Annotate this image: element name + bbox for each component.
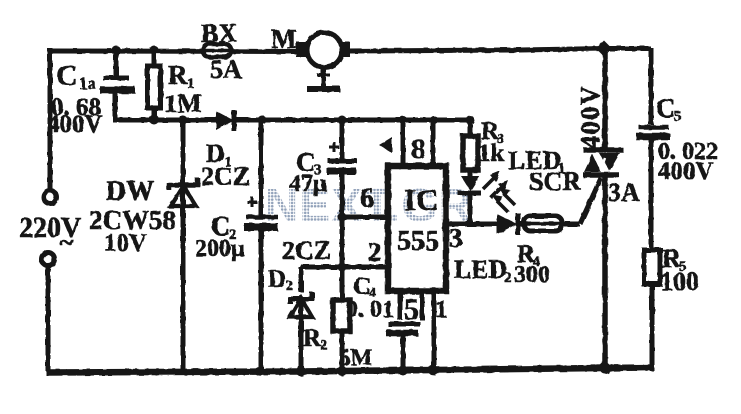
- svg-text:2: 2: [320, 338, 327, 353]
- svg-text:2CZ: 2CZ: [282, 236, 331, 265]
- node SCR top: [596, 41, 612, 57]
- fuse BX: [203, 44, 231, 57]
- pin 4 arrow: [379, 137, 392, 153]
- svg-text:1: 1: [435, 296, 448, 323]
- svg-text:300: 300: [514, 262, 550, 288]
- svg-text:NEXT.GR: NEXT.GR: [265, 179, 473, 231]
- node top C1a: [112, 46, 121, 55]
- svg-text:100: 100: [660, 267, 699, 296]
- wire LED2 lead: [470, 222, 580, 227]
- wire D2 branch: [301, 267, 342, 292]
- node SCR bottom: [600, 363, 611, 374]
- motor M: [296, 33, 350, 90]
- svg-text:M: M: [271, 24, 296, 54]
- svg-text:SCR: SCR: [529, 167, 581, 196]
- svg-text:BX: BX: [201, 19, 237, 48]
- wire through R4: [520, 222, 580, 226]
- wire left input: [48, 48, 53, 190]
- svg-text:3A: 3A: [608, 178, 640, 207]
- SCR: [583, 150, 623, 175]
- wire R3 branch: [468, 120, 473, 224]
- wire pin3: [446, 222, 470, 227]
- svg-text:10V: 10V: [104, 230, 147, 257]
- svg-text:5: 5: [674, 109, 682, 125]
- svg-text:DW: DW: [106, 176, 154, 207]
- wire C3 branch: [340, 121, 345, 268]
- wire through fuse: [196, 49, 238, 53]
- capacitor C2: [244, 197, 278, 227]
- terminal 220V lower: [42, 253, 55, 266]
- capacitor C1a: [100, 78, 135, 90]
- node pin8 right: [430, 116, 438, 124]
- svg-text:400V: 400V: [47, 111, 103, 138]
- svg-text:400V: 400V: [575, 85, 605, 149]
- svg-text:5A: 5A: [210, 55, 242, 84]
- svg-text:LED: LED: [454, 255, 507, 284]
- wire R1 leads: [152, 52, 157, 120]
- LED LED1: [458, 176, 481, 193]
- diode D1: [216, 110, 234, 131]
- wire bottom rail: [46, 368, 653, 373]
- svg-text:0. 01: 0. 01: [346, 297, 394, 323]
- wire mid rail left: [113, 118, 218, 123]
- LED LED2: [497, 213, 518, 235]
- wire top rail right: [348, 49, 651, 52]
- IC U1 555: [388, 166, 446, 291]
- node C4 bottom: [398, 365, 408, 375]
- svg-text:8: 8: [411, 133, 426, 165]
- node D2 bottom: [296, 366, 306, 376]
- LED2 arrows: [492, 188, 515, 212]
- wire R5 bottom lead: [650, 284, 655, 371]
- svg-text:1a: 1a: [79, 74, 97, 93]
- node C2 top: [258, 116, 267, 125]
- svg-text:200μ: 200μ: [195, 236, 245, 262]
- svg-text:2CZ: 2CZ: [201, 162, 250, 191]
- wire lower input: [46, 266, 51, 371]
- wire pin2: [342, 265, 388, 270]
- wire C5 branch: [649, 48, 654, 250]
- node top R1: [150, 46, 159, 55]
- svg-text:2: 2: [286, 279, 293, 294]
- node R3 top: [466, 116, 475, 125]
- capacitor C3: [326, 142, 357, 171]
- resistor R2: [333, 300, 350, 331]
- capacitor C4: [386, 324, 420, 371]
- svg-text:2: 2: [504, 270, 512, 286]
- wire pin6: [342, 215, 388, 220]
- svg-text:5M: 5M: [339, 345, 373, 370]
- node C3 top: [338, 116, 347, 125]
- resistor R3: [463, 136, 478, 170]
- wire C1a bottom lead: [113, 92, 118, 120]
- wire DW branch: [181, 120, 186, 372]
- node pin6: [338, 213, 347, 222]
- wire mid rail right: [234, 118, 472, 123]
- svg-text:1k: 1k: [478, 140, 505, 167]
- zener DW: [169, 178, 198, 206]
- svg-text:5: 5: [404, 293, 419, 326]
- zener D2: [290, 292, 312, 371]
- svg-text:~: ~: [60, 228, 74, 257]
- svg-text:1M: 1M: [164, 89, 202, 118]
- node pin1 bottom: [428, 365, 438, 375]
- resistor R1: [148, 66, 161, 108]
- resistor R4: [524, 216, 562, 231]
- capacitor C5: [636, 128, 670, 137]
- svg-text:D: D: [268, 266, 286, 293]
- wire top rail left: [50, 49, 299, 55]
- svg-text:2: 2: [368, 237, 382, 267]
- svg-text:400V: 400V: [658, 158, 714, 185]
- wire pin1: [432, 291, 437, 371]
- node pin8 left: [399, 116, 407, 124]
- wire R2 leads: [340, 267, 345, 371]
- LED1 arrows: [483, 171, 508, 198]
- wire SCR gate: [580, 178, 601, 224]
- wire C1a top lead: [114, 52, 119, 77]
- resistor R5: [644, 250, 660, 284]
- pin 5 box: [400, 291, 422, 320]
- wire C2 branch: [259, 121, 264, 371]
- wire SCR branch: [602, 48, 608, 370]
- node DW top: [179, 116, 188, 125]
- node C2 bottom: [255, 367, 264, 376]
- svg-text:C: C: [56, 59, 78, 92]
- node R2 bottom: [337, 366, 347, 376]
- terminal 220V upper: [44, 191, 57, 204]
- svg-text:R: R: [168, 60, 188, 90]
- node pin2: [338, 263, 347, 272]
- pin 8 box: [403, 121, 433, 166]
- svg-text:C: C: [656, 93, 676, 123]
- node R1 bottom: [149, 115, 159, 125]
